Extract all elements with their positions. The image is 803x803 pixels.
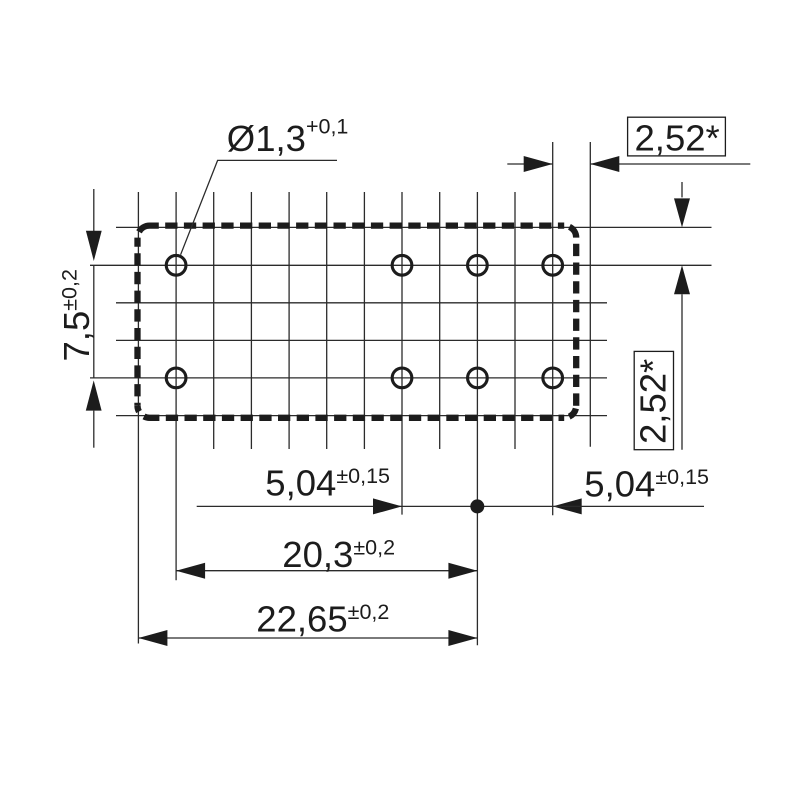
grid horizontal line row4 [116, 339, 607, 341]
hole top row col8 [392, 255, 412, 275]
left vertical dimension 7,5 middle segment [93, 265, 95, 378]
arrowhead left-pointing at col12 [553, 498, 582, 514]
arrowhead up-pointing at row5 [86, 380, 102, 410]
relay body outline bottom-left corner [138, 406, 150, 418]
grid horizontal line row5 (lower hole row) [90, 377, 607, 379]
box label 2,52* top [628, 117, 726, 156]
top dimension 2,52 line left tail [507, 163, 552, 165]
relay body outline bottom edge (dashed) [150, 415, 565, 421]
right vertical dimension 2,52 upper stem [681, 182, 683, 197]
relay body outline left edge (dashed) [134, 238, 140, 406]
arrowhead left-pointing at col13 [590, 156, 619, 172]
hole bottom row col10 [468, 368, 488, 388]
grid horizontal line row2 (upper hole row) [90, 264, 712, 266]
hole bottom row col8 [392, 368, 412, 388]
arrowhead down-pointing at row2 [86, 231, 102, 261]
grid vertical line col10 (hole column, origin extension) [476, 192, 478, 645]
grid vertical line col12 (hole column, 2.52 extension) [552, 142, 554, 515]
grid vertical line col6 [326, 192, 328, 449]
hole top row col10 [468, 255, 488, 275]
grid vertical line col9 [439, 192, 441, 449]
arrowhead left-pointing at col2 [176, 563, 205, 579]
relay body outline top edge (dashed) [150, 222, 565, 228]
arrowhead up-pointing at row2 [674, 265, 690, 294]
right vertical dimension 2,52 lower stem [681, 294, 683, 449]
dimension line 22,65 [138, 637, 477, 639]
grid vertical line col11 [514, 192, 516, 449]
grid vertical line col13 (right edge, 2.52 extension) [589, 142, 591, 447]
hole top row col12 [543, 255, 563, 275]
top dimension 2,52 line right tail [590, 163, 750, 165]
origin dot at col10 [470, 499, 484, 513]
dimension 5,04 right tail line [553, 505, 704, 507]
arrowhead right-pointing at col10 [448, 630, 477, 646]
hole bottom row col2 [166, 368, 186, 388]
hole pin1 top-left [166, 255, 186, 275]
grid vertical line col3 [213, 192, 215, 449]
relay body outline top-left corner [138, 226, 150, 238]
box label 2,52* right (rotated) [634, 351, 673, 449]
left vertical dimension 7,5 upper stem [93, 189, 95, 231]
arrowhead left-pointing at col1 [138, 630, 167, 646]
grid vertical line col4 [250, 192, 252, 449]
arrowhead right-pointing at col8 [373, 498, 402, 514]
hole bottom row col12 [543, 368, 563, 388]
dimension 5,04 middle line through origin [402, 505, 553, 507]
leader line for hole diameter label [181, 160, 337, 254]
svg-text:2,52*: 2,52* [635, 117, 720, 158]
svg-text:2,52*: 2,52* [633, 359, 674, 444]
left vertical dimension 7,5 lower stem [93, 411, 95, 448]
grid vertical line col2 (hole column, 20.3 extension) [175, 192, 177, 580]
grid vertical line col7 [363, 192, 365, 449]
arrowhead down-pointing at row1 [674, 198, 690, 227]
grid vertical line col1 (left edge, 22.65 extension) [137, 192, 139, 644]
relay body outline right edge (dashed) [573, 238, 579, 406]
arrowhead right-pointing at col10 [448, 563, 477, 579]
grid horizontal line row3 [116, 302, 607, 304]
dimension 5,04 left tail line [197, 505, 402, 507]
grid horizontal line row1 (top edge) [116, 226, 712, 228]
grid horizontal line row6 (bottom edge) [116, 415, 607, 417]
dimension line 20,3 [176, 570, 477, 572]
relay body outline top-right corner [564, 226, 576, 238]
arrowhead right-pointing at col12 [524, 156, 553, 172]
relay body outline bottom-right corner [564, 406, 576, 418]
grid vertical line col8 (hole column, 5.04 extension) [401, 192, 403, 515]
grid vertical line col5 [288, 192, 290, 449]
